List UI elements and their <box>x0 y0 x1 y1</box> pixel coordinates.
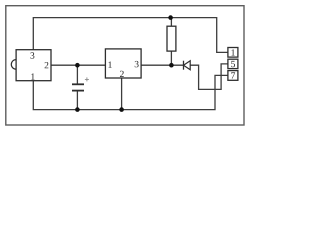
connector pin box 7 <box>228 71 238 81</box>
capacitor C1 top plate <box>72 83 84 85</box>
IC pin label 3 <box>135 61 139 67</box>
connector pin box 5 <box>228 59 238 68</box>
microphone membrane arc <box>11 60 16 70</box>
wire: resistor bottom lead <box>170 51 172 65</box>
wire: diode anode to connector pin 5 <box>190 64 228 90</box>
capacitor polarity plus <box>85 77 89 81</box>
junction dot bottom rail / IC pin2 <box>119 107 124 112</box>
mic pin label 1 <box>31 73 34 79</box>
wire: resistor top lead <box>170 18 172 27</box>
junction dot pin2 rail / capacitor <box>75 63 80 68</box>
border frame <box>6 6 244 125</box>
diode V1 cathode bar <box>183 61 185 70</box>
connector pin label 5 <box>231 61 235 67</box>
wire: IC pin3 rail to diode cathode <box>141 64 183 66</box>
junction dot top rail / resistor <box>168 15 173 20</box>
IC pin label 1 <box>108 62 111 68</box>
diode V1 triangle <box>184 61 191 70</box>
junction dot bottom rail / capacitor <box>75 107 80 112</box>
junction dot out rail / resistor bottom <box>169 63 174 68</box>
microphone B1 box <box>16 50 51 81</box>
mic pin label 3 <box>30 52 34 58</box>
wire: mic pin2 rail to IC pin1 <box>51 64 105 66</box>
connector pin box 1 <box>228 48 238 58</box>
wire: mic pin1 down, bottom rail, up to connector pin 7 <box>33 75 228 109</box>
connector pin label 7 <box>231 72 235 78</box>
capacitor C1 bottom plate <box>72 90 84 92</box>
wire: capacitor top lead <box>76 65 78 84</box>
mic pin label 2 <box>45 62 49 68</box>
resistor R1 <box>167 26 176 51</box>
IC pin label 2 <box>120 71 124 77</box>
wire: capacitor bottom lead <box>76 91 78 110</box>
wire: IC pin2 down to bottom rail <box>121 78 123 110</box>
wire: mic pin3 up and top rail to connector pin 1 <box>33 18 228 53</box>
connector pin label 1 <box>231 49 234 55</box>
amplifier IC box <box>105 49 141 78</box>
